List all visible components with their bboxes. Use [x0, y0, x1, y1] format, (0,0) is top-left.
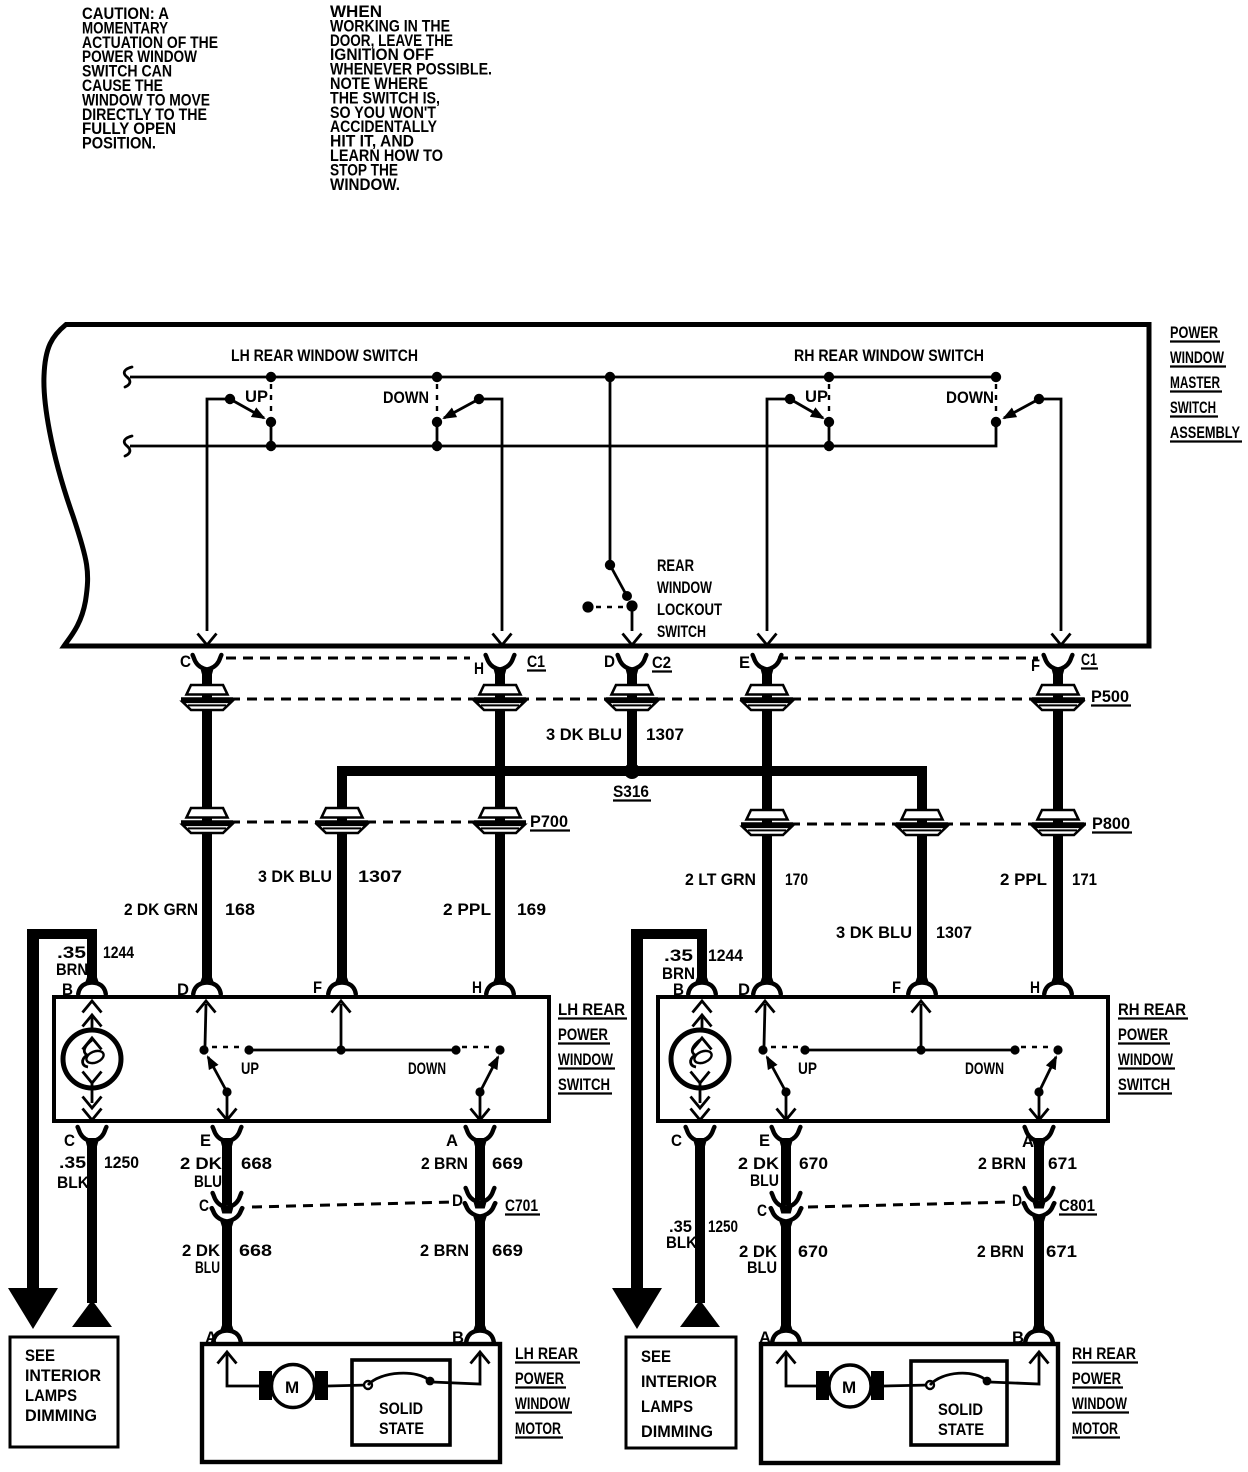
wire label: 2 DK GRN 168	[124, 900, 255, 919]
node: LH DOWN contact	[451, 1045, 460, 1054]
label: POWER WINDOW MASTER SWITCH ASSEMBLY	[1170, 323, 1242, 442]
wire arm to E terminal RH	[777, 1092, 796, 1120]
wire label: 2 DK BLU 668	[180, 1154, 272, 1191]
label: S316	[613, 782, 651, 801]
terminal D of RH switch	[753, 978, 781, 995]
svg-text:MASTER: MASTER	[1170, 373, 1220, 392]
svg-text:DOWN: DOWN	[383, 388, 429, 407]
node: LH UP contact	[266, 417, 276, 427]
RH switch arm E	[767, 1057, 786, 1092]
node: RH UP contact	[800, 1045, 809, 1054]
wire LH lamp feed from B up and left	[33, 934, 92, 979]
arrow to see-interior-lamps RH	[612, 1288, 662, 1329]
svg-text:3 DK BLU: 3 DK BLU	[546, 725, 622, 744]
terminal B of RH switch	[688, 978, 716, 995]
svg-text:WINDOW: WINDOW	[1170, 348, 1225, 367]
LH rear power window switch box	[54, 997, 549, 1121]
wire motor to solid state LH	[328, 1385, 368, 1386]
wire contact to lower bus	[436, 422, 439, 446]
svg-text:UP: UP	[805, 387, 828, 406]
power window master switch assembly box outline	[44, 325, 1149, 647]
RH DOWN dashed guide	[995, 384, 997, 413]
svg-text:BLU: BLU	[194, 1172, 222, 1191]
svg-text:.35: .35	[59, 1153, 86, 1172]
wire motor to solid state RH	[884, 1385, 930, 1386]
svg-text:F: F	[892, 978, 901, 997]
node: RH UP pivot	[785, 394, 795, 404]
node: RH DOWN contact	[991, 417, 1001, 427]
svg-text:SEE: SEE	[641, 1347, 671, 1366]
label: C801	[1059, 1196, 1097, 1215]
lockout dashed contact line	[596, 606, 624, 608]
svg-text:P800: P800	[1092, 814, 1130, 833]
wire RH UP pivot to E terminal	[767, 399, 790, 631]
node: lockout open contact	[582, 601, 593, 612]
LH DOWN dashed guide	[436, 384, 438, 413]
node: LH UP contact	[244, 1045, 253, 1054]
svg-text:DOWN: DOWN	[965, 1059, 1004, 1078]
connector P800 pin E	[741, 810, 793, 835]
svg-text:LH REAR WINDOW SWITCH: LH REAR WINDOW SWITCH	[231, 346, 418, 365]
solid state module RH	[911, 1361, 1007, 1445]
svg-text:POWER: POWER	[1118, 1025, 1168, 1044]
svg-text:WINDOW.: WINDOW.	[330, 175, 400, 194]
RH switch D branch arrow	[756, 1001, 775, 1046]
svg-text:C: C	[671, 1131, 682, 1150]
wire label: 2 DK BLU 670 lower	[739, 1242, 828, 1277]
connector P700 pin H	[474, 808, 526, 833]
wire label: 2 PPL 171	[1000, 870, 1097, 889]
LH UP switch arm	[230, 399, 264, 418]
svg-text:BLU: BLU	[750, 1171, 779, 1190]
LH lamp branch arrows	[83, 1001, 102, 1050]
svg-text:1307: 1307	[358, 867, 402, 886]
svg-text:M: M	[285, 1378, 299, 1397]
node: lockout feed junction	[605, 372, 615, 382]
svg-text:C2: C2	[652, 653, 671, 672]
terminal row dashed line E to F	[778, 657, 1038, 660]
break mark on top bus	[124, 367, 132, 387]
svg-text:A: A	[205, 1328, 217, 1347]
svg-text:2 BRN: 2 BRN	[421, 1154, 468, 1173]
lamp RH window switch illumination	[671, 1030, 729, 1088]
svg-text:171: 171	[1072, 870, 1097, 889]
wire RH interior lamps feed vertical	[631, 929, 643, 1288]
svg-text:RH REAR: RH REAR	[1072, 1344, 1136, 1363]
svg-text:669: 669	[492, 1154, 523, 1173]
svg-text:WINDOW: WINDOW	[515, 1394, 571, 1413]
wire S316 horizontal run with elbows	[342, 771, 922, 979]
arrow into box bottom at C	[198, 634, 217, 646]
node: LH F contact junction	[336, 1045, 345, 1054]
wire stem D column to S316	[627, 670, 637, 771]
label: P800	[1092, 814, 1132, 833]
terminal B of LH switch	[78, 978, 106, 995]
svg-text:3 DK BLU: 3 DK BLU	[258, 867, 332, 886]
connector C701 pin C pair	[212, 1193, 243, 1227]
svg-text:1250: 1250	[104, 1153, 139, 1172]
svg-text:SWITCH: SWITCH	[1170, 398, 1216, 417]
terminal B of RH motor	[1025, 1326, 1053, 1343]
label: C701	[505, 1196, 540, 1215]
svg-text:SOLID: SOLID	[379, 1399, 423, 1418]
node: RH arm A end	[1034, 1087, 1043, 1096]
terminal H of LH switch	[486, 978, 514, 995]
svg-text:UP: UP	[798, 1059, 817, 1078]
svg-text:DIMMING: DIMMING	[641, 1422, 713, 1441]
wire stem F column	[1053, 670, 1063, 979]
arrow to see-interior-lamps LH	[8, 1288, 58, 1329]
LH switch arm A	[480, 1057, 498, 1092]
wire label: .35 BLK 1250 RH	[666, 1217, 738, 1252]
svg-text:M: M	[842, 1378, 856, 1397]
svg-text:WINDOW: WINDOW	[1072, 1394, 1128, 1413]
svg-text:INTERIOR: INTERIOR	[641, 1372, 717, 1391]
contact bar UP to DOWN	[249, 1049, 456, 1052]
svg-text:670: 670	[798, 1242, 828, 1261]
connector C801 pin D pair	[1024, 1188, 1055, 1222]
RH UP dashed guide	[828, 384, 830, 413]
svg-text:POWER: POWER	[1170, 323, 1218, 342]
terminal E of RH switch	[772, 1127, 801, 1148]
svg-text:D: D	[452, 1191, 463, 1210]
node: RH arm E end	[781, 1087, 790, 1096]
svg-text:WINDOW: WINDOW	[558, 1050, 614, 1069]
note: caution paragraph	[82, 4, 218, 153]
node: LH DOWN lower bus junction	[432, 441, 442, 451]
svg-text:C1: C1	[527, 652, 545, 671]
label: P500	[1091, 687, 1131, 706]
wire LH DOWN pivot to H terminal	[479, 399, 502, 631]
svg-text:H: H	[1030, 978, 1040, 997]
wire label: .35 BRN 1244 RH	[662, 946, 743, 983]
wire E column upper RH	[781, 1138, 791, 1205]
svg-text:B: B	[673, 980, 684, 999]
wire arm to A terminal	[471, 1092, 490, 1120]
svg-text:D: D	[604, 652, 615, 671]
wire RH lamp feed from B up and left	[637, 934, 702, 979]
node: RH DOWN pivot	[1034, 394, 1044, 404]
arrow into box bottom at D	[623, 634, 642, 646]
solid state module LH	[352, 1360, 450, 1445]
terminal E of master	[753, 655, 782, 676]
node: lockout closed contact	[626, 600, 637, 611]
terminal C of master	[193, 655, 222, 676]
wire label: 2 BRN 671	[978, 1154, 1077, 1173]
svg-text:LH REAR: LH REAR	[558, 1000, 625, 1019]
connector row P800 dashed line	[790, 823, 1086, 826]
terminal F of RH switch	[908, 978, 936, 995]
wire LH UP pivot to C terminal	[207, 399, 230, 631]
svg-text:MOTOR: MOTOR	[515, 1419, 561, 1438]
RH switch F branch arrow	[912, 1001, 931, 1048]
svg-text:3 DK BLU: 3 DK BLU	[836, 923, 912, 942]
terminal E of LH switch	[213, 1127, 242, 1148]
svg-text:1307: 1307	[936, 923, 972, 942]
svg-text:H: H	[472, 978, 482, 997]
svg-text:WINDOW: WINDOW	[657, 578, 713, 597]
wire label: .35 BRN 1244	[56, 943, 134, 979]
svg-text:POWER: POWER	[558, 1025, 608, 1044]
wire E column lower RH	[781, 1222, 791, 1327]
LH rear power window motor box	[202, 1344, 500, 1462]
wire label: 2 BRN 671 lower	[977, 1242, 1077, 1261]
wire label: 2 LT GRN 170	[685, 870, 808, 889]
svg-text:2 BRN: 2 BRN	[420, 1241, 469, 1260]
connector C701 pin D pair	[465, 1188, 496, 1222]
svg-text:C: C	[64, 1131, 75, 1150]
svg-text:E: E	[759, 1131, 770, 1150]
dashed DOWN contact to pivot RH	[1021, 1046, 1052, 1048]
node: LH switch pivot 1	[199, 1045, 208, 1054]
svg-text:A: A	[1022, 1132, 1034, 1151]
svg-text:RH REAR WINDOW SWITCH: RH REAR WINDOW SWITCH	[794, 346, 984, 365]
svg-text:B: B	[62, 980, 73, 999]
wire A column upper	[475, 1138, 485, 1200]
wire motor A branch RH	[777, 1352, 819, 1386]
svg-text:SOLID: SOLID	[938, 1400, 983, 1419]
LH DOWN switch arm	[444, 399, 479, 418]
svg-text:RH REAR: RH REAR	[1118, 1000, 1186, 1019]
svg-text:C: C	[180, 652, 191, 671]
connector P500 pin C	[181, 685, 233, 710]
motor M LH	[259, 1365, 328, 1408]
terminal A of RH switch	[1025, 1127, 1054, 1148]
RH rear power window switch box	[658, 997, 1108, 1121]
label: P700	[530, 812, 570, 831]
terminal B of LH motor	[466, 1326, 494, 1343]
terminal A of LH switch	[466, 1127, 495, 1148]
terminal F of LH switch	[328, 978, 356, 995]
contact bar UP to DOWN RH	[805, 1049, 1015, 1052]
node: RH switch pivot 2	[1053, 1045, 1062, 1054]
terminal A of RH motor	[772, 1326, 800, 1343]
note: when-working paragraph	[330, 2, 492, 194]
RH UP switch arm	[790, 399, 823, 418]
node: LH DOWN switch top junction	[432, 372, 442, 382]
label: LH REAR POWER WINDOW MOTOR	[515, 1344, 580, 1438]
connector P700 pin C	[181, 808, 233, 833]
svg-text:SWITCH: SWITCH	[1118, 1075, 1170, 1094]
svg-text:2 PPL: 2 PPL	[1000, 870, 1047, 889]
node: RH F contact junction	[916, 1045, 925, 1054]
wire label: 3 DK BLU 1307 (P700 F)	[258, 867, 402, 886]
label: REAR WINDOW LOCKOUT SWITCH	[657, 556, 722, 641]
dashed pivot to UP contact	[771, 1046, 799, 1048]
rear window lockout switch arm	[610, 565, 628, 598]
svg-text:F: F	[1031, 656, 1040, 675]
wire arm to E terminal	[218, 1092, 237, 1120]
svg-text:LAMPS: LAMPS	[25, 1386, 77, 1405]
svg-text:E: E	[200, 1131, 211, 1150]
svg-text:INTERIOR: INTERIOR	[25, 1366, 101, 1385]
svg-text:BLU: BLU	[747, 1258, 777, 1277]
wire E column upper	[222, 1138, 232, 1205]
svg-text:1244: 1244	[708, 946, 743, 965]
svg-text:2 BRN: 2 BRN	[978, 1154, 1026, 1173]
arrow up to LH switch C	[72, 1300, 112, 1327]
node: LH DOWN contact	[432, 417, 442, 427]
svg-text:1244: 1244	[103, 943, 134, 962]
LH switch arm E	[208, 1057, 227, 1092]
arrow into box bottom at F	[1052, 634, 1071, 646]
wire motor A branch	[218, 1352, 262, 1386]
node: splice S316	[624, 763, 640, 779]
svg-text:E: E	[739, 653, 750, 672]
svg-text:C: C	[757, 1201, 767, 1220]
svg-text:POWER: POWER	[515, 1369, 564, 1388]
wire to lockout switch	[609, 377, 612, 565]
terminal F of master	[1044, 655, 1073, 676]
svg-text:D: D	[738, 980, 750, 999]
svg-text:SEE: SEE	[25, 1346, 55, 1365]
svg-text:169: 169	[517, 900, 546, 919]
label: RH REAR POWER WINDOW MOTOR	[1072, 1344, 1138, 1438]
dashed pivot to UP contact	[212, 1046, 243, 1048]
svg-text:.35: .35	[664, 946, 693, 965]
wire C column to lamps-dimming arrow RH	[695, 1138, 705, 1303]
svg-text:REAR: REAR	[657, 556, 694, 575]
svg-text:STATE: STATE	[379, 1419, 424, 1438]
label: C1	[527, 652, 546, 671]
svg-text:STATE: STATE	[938, 1420, 984, 1439]
RH DOWN switch arm	[1004, 399, 1039, 418]
terminal H of RH switch	[1044, 978, 1072, 995]
node: RH UP switch top junction	[824, 372, 834, 382]
svg-text:LH REAR: LH REAR	[515, 1344, 578, 1363]
svg-text:ASSEMBLY: ASSEMBLY	[1170, 423, 1240, 442]
svg-text:UP: UP	[245, 387, 268, 406]
svg-text:D: D	[1012, 1191, 1022, 1210]
arrow into box bottom at H	[493, 634, 512, 646]
wire label: 2 BRN 669 lower	[420, 1241, 523, 1260]
RH lamp lower arrows	[691, 1072, 710, 1121]
svg-text:P700: P700	[530, 812, 568, 831]
LH UP switch dashed guide	[270, 384, 272, 413]
wire motor B branch	[432, 1352, 490, 1384]
svg-text:670: 670	[799, 1154, 828, 1173]
node: RH UP contact	[824, 417, 834, 427]
wire label: 3 DK BLU 1307 (C2 circuit)	[546, 725, 684, 744]
svg-text:LAMPS: LAMPS	[641, 1397, 693, 1416]
svg-text:2 DK: 2 DK	[180, 1154, 223, 1173]
connector P500 pin H	[474, 685, 526, 710]
see interior lamps dimming box LH	[10, 1337, 118, 1447]
svg-text:671: 671	[1046, 1242, 1077, 1261]
svg-text:LOCKOUT: LOCKOUT	[657, 600, 722, 619]
svg-text:POWER: POWER	[1072, 1369, 1121, 1388]
label: RH REAR POWER WINDOW SWITCH	[1118, 1000, 1188, 1094]
label: C2	[652, 653, 672, 672]
wire label: 2 BRN 669	[421, 1154, 523, 1173]
svg-text:1250: 1250	[708, 1217, 738, 1236]
node: RH DOWN contact	[1010, 1045, 1019, 1054]
svg-text:MOTOR: MOTOR	[1072, 1419, 1118, 1438]
wire lockout to D terminal	[631, 606, 634, 631]
svg-text:2 BRN: 2 BRN	[977, 1242, 1024, 1261]
svg-text:DOWN: DOWN	[946, 388, 994, 407]
arrow up to RH switch C	[680, 1300, 720, 1327]
wire stem E column	[762, 670, 772, 979]
svg-text:2 PPL: 2 PPL	[443, 900, 491, 919]
wire A column lower	[475, 1217, 485, 1327]
node: LH arm E end	[222, 1087, 231, 1096]
svg-text:S316: S316	[613, 782, 649, 801]
connector P800 pin H	[1032, 810, 1084, 835]
svg-text:P500: P500	[1091, 687, 1129, 706]
LH switch F branch arrow	[332, 1001, 351, 1048]
node: LH DOWN pivot	[474, 394, 484, 404]
terminal C of RH switch	[686, 1127, 715, 1148]
svg-text:168: 168	[225, 900, 255, 919]
svg-text:UP: UP	[241, 1059, 259, 1078]
bus wire B+ top	[130, 376, 996, 379]
terminal D of LH switch	[193, 978, 221, 995]
node: RH UP lower bus junction	[824, 441, 834, 451]
svg-text:BLK: BLK	[666, 1233, 698, 1252]
svg-text:C1: C1	[1081, 650, 1097, 669]
svg-text:B: B	[452, 1328, 464, 1347]
wire label: 3 DK BLU 1307 (P800 F)	[836, 923, 972, 942]
arrow into box bottom at E	[758, 634, 777, 646]
svg-text:C701: C701	[505, 1196, 538, 1215]
node: RH switch pivot 1	[758, 1045, 767, 1054]
svg-text:668: 668	[241, 1154, 272, 1173]
svg-text:F: F	[313, 978, 322, 997]
wire stem C column	[202, 670, 212, 979]
wire motor B branch RH	[989, 1352, 1049, 1384]
connector P500 pin E	[741, 685, 793, 710]
bus wire lower	[130, 424, 996, 446]
break mark on lower bus	[124, 436, 132, 456]
wire contact to lower bus	[828, 422, 831, 446]
connector P500 pin D	[606, 685, 658, 710]
terminal C of LH switch	[78, 1127, 107, 1148]
svg-text:BRN: BRN	[56, 960, 88, 979]
terminal D of master	[618, 655, 647, 676]
svg-text:2 DK GRN: 2 DK GRN	[124, 900, 198, 919]
lamp LH window switch illumination	[63, 1030, 121, 1088]
wire A column lower RH	[1034, 1217, 1044, 1327]
node: LH UP switch top junction	[266, 372, 276, 382]
svg-text:2 LT GRN: 2 LT GRN	[685, 870, 756, 889]
wire RH DOWN pivot to F terminal	[1039, 399, 1061, 631]
svg-text:C: C	[199, 1196, 209, 1215]
svg-text:671: 671	[1048, 1154, 1077, 1173]
wire E column lower	[222, 1222, 232, 1327]
LH lamp lower arrows	[83, 1072, 102, 1121]
wire stem H column	[495, 670, 505, 979]
svg-text:DIMMING: DIMMING	[25, 1406, 97, 1425]
svg-text:D: D	[177, 980, 189, 999]
node: lockout arm tip	[622, 591, 632, 601]
node: LH arm A end	[475, 1087, 484, 1096]
wire label: 2 DK BLU 670	[738, 1154, 828, 1190]
node: LH UP lower bus junction	[266, 441, 276, 451]
connector C701 dashed line	[252, 1202, 452, 1207]
svg-text:BLK: BLK	[57, 1173, 90, 1192]
RH switch arm A	[1039, 1057, 1056, 1092]
svg-text:C801: C801	[1059, 1196, 1095, 1215]
connector P700 pin F	[316, 808, 368, 833]
wire C column to lamps-dimming arrow	[87, 1138, 97, 1303]
svg-text:SWITCH: SWITCH	[558, 1075, 610, 1094]
LH switch D branch arrow	[197, 1001, 216, 1046]
wire contact to lower bus	[270, 422, 273, 446]
svg-text:170: 170	[785, 870, 808, 889]
wire A column upper RH	[1034, 1138, 1044, 1200]
svg-text:A: A	[446, 1131, 458, 1150]
